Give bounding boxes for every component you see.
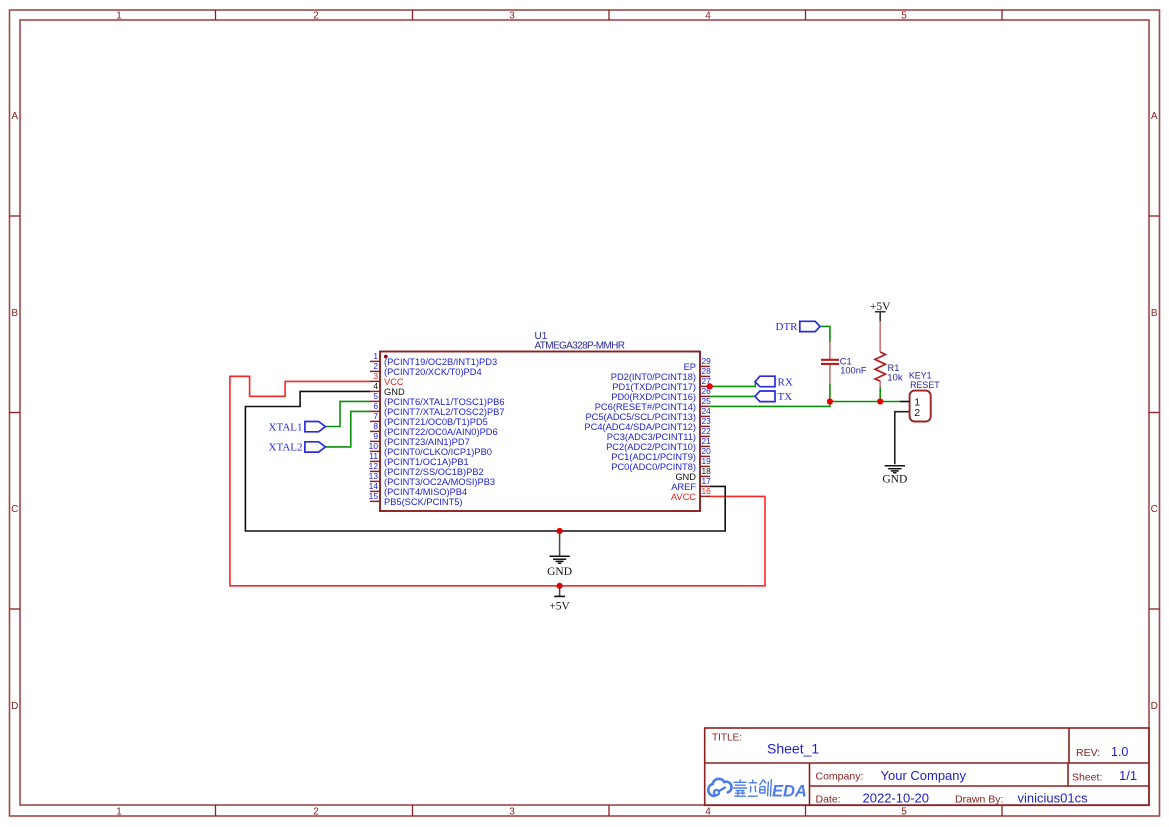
svg-text:PC6(RESET#/PCINT14): PC6(RESET#/PCINT14)	[595, 402, 696, 412]
svg-text:100nF: 100nF	[840, 366, 867, 376]
svg-text:TX: TX	[778, 391, 793, 403]
reference designator KEY1	[909, 371, 932, 381]
svg-text:VCC: VCC	[384, 377, 404, 387]
svg-text:Your Company: Your Company	[881, 768, 967, 783]
net port XTAL2	[269, 442, 326, 454]
svg-text:REV:: REV:	[1076, 747, 1100, 759]
svg-text:2022-10-20: 2022-10-20	[863, 791, 930, 806]
ground symbol center bottom	[547, 531, 572, 578]
svg-text:23: 23	[702, 416, 712, 426]
reference designator C1	[840, 357, 852, 367]
ground symbol below KEY1	[882, 466, 907, 486]
svg-text:GND: GND	[384, 387, 405, 397]
pin 17 AREF	[671, 476, 711, 492]
svg-text:3: 3	[373, 371, 378, 381]
svg-text:22: 22	[702, 426, 712, 436]
svg-text:AREF: AREF	[671, 482, 696, 492]
svg-text:D: D	[11, 701, 18, 712]
svg-text:5: 5	[373, 391, 378, 401]
svg-text:29: 29	[702, 356, 712, 366]
svg-text:(PCINT7/XTAL2/TOSC2)PB7: (PCINT7/XTAL2/TOSC2)PB7	[384, 407, 505, 417]
svg-text:XTAL2: XTAL2	[269, 442, 303, 454]
svg-text:17: 17	[702, 476, 712, 486]
svg-text:(PCINT4/MISO)PB4: (PCINT4/MISO)PB4	[384, 487, 467, 497]
pin 28 PD2(INT0/PCINT18)	[611, 366, 711, 382]
pin 20 PC1(ADC1/PCINT9)	[611, 446, 711, 462]
svg-text:6: 6	[373, 401, 378, 411]
svg-text:4: 4	[373, 381, 378, 391]
wire RX net from pin 27	[710, 382, 755, 387]
pin 24 PC5(ADC5/SCL/PCINT13)	[585, 406, 711, 422]
pin 19 PC0(ADC0/PCINT8)	[611, 456, 711, 472]
junction C1 bottom	[827, 398, 833, 404]
junction GND rail	[557, 528, 563, 534]
svg-text:RESET: RESET	[910, 380, 940, 390]
svg-text:2: 2	[914, 407, 920, 419]
svg-text:5: 5	[901, 11, 907, 22]
wire TX net from pin 26	[710, 395, 755, 397]
svg-text:4: 4	[705, 807, 711, 818]
svg-text:10k: 10k	[887, 372, 903, 383]
svg-text:PD2(INT0/PCINT18): PD2(INT0/PCINT18)	[611, 372, 696, 382]
junction +5V rail	[557, 583, 563, 589]
svg-text:12: 12	[369, 461, 379, 471]
value label RESET	[910, 380, 940, 390]
pin 7 (PCINT21/OC0B/T1)PD5	[370, 411, 488, 427]
svg-text:1: 1	[116, 11, 122, 22]
value label ATMEGA328P-MMHR	[535, 341, 626, 352]
svg-text:vinicius01cs: vinicius01cs	[1018, 791, 1089, 806]
svg-text:(PCINT21/OC0B/T1)PD5: (PCINT21/OC0B/T1)PD5	[384, 417, 488, 427]
svg-text:7: 7	[373, 411, 378, 421]
svg-text:24: 24	[702, 406, 712, 416]
pin 13 (PCINT3/OC2A/MOSI)PB3	[369, 471, 495, 487]
wire XTAL1 net to pin 5	[325, 401, 370, 426]
power +5V above R1	[870, 301, 891, 322]
value label 100nF	[840, 366, 867, 376]
pin 1 (PCINT19/OC2B/INT1)PD3	[370, 351, 497, 367]
svg-text:PB5(SCK/PCINT5): PB5(SCK/PCINT5)	[384, 497, 463, 507]
pin 15 PB5(SCK/PCINT5)	[369, 491, 463, 507]
pin 11 (PCINT1/OC1A)PB1	[369, 451, 468, 467]
svg-text:1: 1	[116, 807, 122, 818]
svg-text:19: 19	[702, 456, 712, 466]
pin 3 VCC	[370, 371, 404, 387]
svg-text:PC2(ADC2/PCINT10): PC2(ADC2/PCINT10)	[606, 442, 696, 452]
svg-text:A: A	[11, 111, 18, 122]
svg-text:(PCINT20/XCK/T0)PD4: (PCINT20/XCK/T0)PD4	[384, 367, 482, 377]
svg-text:ATMEGA328P-MMHR: ATMEGA328P-MMHR	[535, 341, 626, 352]
net port DTR	[776, 321, 821, 333]
wire GND net from pin 4 loop to pin 17	[245, 391, 725, 531]
pin 25 PC6(RESET#/PCINT14)	[595, 396, 711, 412]
svg-text:GND: GND	[547, 566, 572, 578]
resistor R1	[875, 321, 885, 387]
pin 27 PD1(TXD/PCINT17)	[612, 376, 711, 392]
svg-text:21: 21	[702, 436, 712, 446]
svg-text:Company:: Company:	[816, 771, 864, 783]
svg-text:PC0(ADC0/PCINT8): PC0(ADC0/PCINT8)	[611, 462, 696, 472]
junction R1 bottom	[877, 398, 883, 404]
pin 18 GND	[675, 466, 711, 482]
value label 10k	[887, 372, 903, 383]
svg-text:KEY1: KEY1	[909, 371, 932, 381]
pin 5 (PCINT6/XTAL1/TOSC1)PB6	[370, 391, 505, 407]
svg-text:15: 15	[369, 491, 379, 501]
junction pin 27	[707, 383, 713, 389]
pin 4 GND	[370, 381, 405, 397]
svg-text:9: 9	[373, 431, 378, 441]
reference designator R1	[888, 363, 900, 373]
pin 21 PC2(ADC2/PCINT10)	[606, 436, 711, 452]
svg-text:RX: RX	[778, 376, 793, 388]
wire RESET net from pin 25 to KEY1 pin 1	[710, 402, 900, 407]
svg-text:10: 10	[369, 441, 379, 451]
reference designator U1	[535, 331, 548, 342]
wire R1 bottom to RESET net	[879, 387, 881, 401]
svg-text:(PCINT19/OC2B/INT1)PD3: (PCINT19/OC2B/INT1)PD3	[384, 357, 497, 367]
svg-text:3: 3	[509, 11, 515, 22]
svg-text:PD0(RXD/PCINT16): PD0(RXD/PCINT16)	[611, 392, 696, 402]
svg-text:2: 2	[313, 11, 319, 22]
pin 16 AVCC	[671, 486, 711, 502]
svg-text:1/1: 1/1	[1119, 768, 1137, 783]
pin 2 (PCINT20/XCK/T0)PD4	[370, 361, 482, 377]
svg-text:(PCINT6/XTAL1/TOSC1)PB6: (PCINT6/XTAL1/TOSC1)PB6	[384, 397, 505, 407]
pin 9 (PCINT23/AIN1)PD7	[370, 431, 470, 447]
pin 12 (PCINT2/SS/OC1B)PB2	[369, 461, 484, 477]
IC U1 ATMEGA328P-MMHR body	[380, 352, 700, 512]
svg-text:PD1(TXD/PCINT17): PD1(TXD/PCINT17)	[612, 382, 696, 392]
svg-text:8: 8	[373, 421, 378, 431]
svg-text:20: 20	[702, 446, 712, 456]
svg-text:C: C	[1151, 504, 1158, 515]
svg-text:DTR: DTR	[776, 321, 799, 333]
svg-text:AVCC: AVCC	[671, 492, 696, 502]
svg-text:25: 25	[702, 396, 712, 406]
svg-text:Drawn By:: Drawn By:	[955, 794, 1003, 806]
pin 23 PC4(ADC4/SDA/PCINT12)	[584, 416, 711, 432]
svg-text:A: A	[1151, 111, 1158, 122]
svg-text:2: 2	[373, 361, 378, 371]
svg-text:Sheet_1: Sheet_1	[767, 741, 819, 757]
net port RX	[755, 376, 793, 388]
svg-text:XTAL1: XTAL1	[269, 421, 303, 433]
svg-text:GND: GND	[882, 473, 907, 485]
svg-text:+5V: +5V	[549, 600, 570, 612]
wire KEY1 pin 2 to ground	[895, 412, 910, 465]
svg-text:Date:: Date:	[816, 794, 841, 806]
svg-text:PC1(ADC1/PCINT9): PC1(ADC1/PCINT9)	[611, 452, 696, 462]
svg-text:1.0: 1.0	[1111, 745, 1128, 759]
svg-text:PC4(ADC4/SDA/PCINT12): PC4(ADC4/SDA/PCINT12)	[584, 422, 696, 432]
svg-text:11: 11	[369, 451, 378, 461]
svg-text:(PCINT23/AIN1)PD7: (PCINT23/AIN1)PD7	[384, 437, 470, 447]
pin 29 EP	[684, 356, 712, 372]
svg-text:EDA: EDA	[772, 783, 807, 801]
logo JLC EDA	[708, 779, 807, 801]
wire VCC net from pin 3 staircase to bottom rail and pin 16	[230, 376, 765, 586]
svg-text:(PCINT2/SS/OC1B)PB2: (PCINT2/SS/OC1B)PB2	[384, 467, 484, 477]
svg-text:PC5(ADC5/SCL/PCINT13): PC5(ADC5/SCL/PCINT13)	[585, 412, 696, 422]
wire XTAL2 net to pin 6	[325, 411, 370, 447]
svg-text:C: C	[11, 504, 18, 515]
svg-text:1: 1	[373, 351, 378, 361]
svg-text:TITLE:: TITLE:	[712, 733, 742, 744]
svg-text:3: 3	[509, 807, 515, 818]
svg-text:B: B	[11, 308, 18, 319]
svg-text:4: 4	[705, 11, 711, 22]
svg-text:(PCINT22/OC0A/AIN0)PD6: (PCINT22/OC0A/AIN0)PD6	[384, 427, 498, 437]
svg-text:5: 5	[901, 807, 907, 818]
svg-text:B: B	[1151, 308, 1158, 319]
title block	[705, 728, 1149, 806]
power +5V bottom	[549, 586, 570, 613]
svg-text:18: 18	[702, 466, 712, 476]
pin 14 (PCINT4/MISO)PB4	[369, 481, 468, 497]
pin 10 (PCINT0/CLKO/ICP1)PB0	[369, 441, 492, 457]
pushbutton KEY1	[900, 391, 931, 422]
svg-text:(PCINT0/CLKO/ICP1)PB0: (PCINT0/CLKO/ICP1)PB0	[384, 447, 492, 457]
svg-text:GND: GND	[675, 472, 696, 482]
svg-text:PC3(ADC3/PCINT11): PC3(ADC3/PCINT11)	[607, 432, 696, 442]
svg-text:D: D	[1151, 701, 1158, 712]
wire C1 bottom to RESET net	[829, 384, 831, 402]
pin 26 PD0(RXD/PCINT16)	[611, 386, 711, 402]
svg-text:(PCINT3/OC2A/MOSI)PB3: (PCINT3/OC2A/MOSI)PB3	[384, 477, 495, 487]
svg-text:16: 16	[702, 486, 712, 496]
pin 22 PC3(ADC3/PCINT11)	[607, 426, 711, 442]
net port XTAL1	[269, 421, 326, 433]
svg-text:Sheet:: Sheet:	[1072, 772, 1102, 784]
pin 6 (PCINT7/XTAL2/TOSC2)PB7	[370, 401, 505, 417]
svg-text:EP: EP	[684, 362, 696, 372]
svg-text:28: 28	[702, 366, 712, 376]
pin 8 (PCINT22/OC0A/AIN0)PD6	[370, 421, 498, 437]
capacitor C1	[821, 342, 839, 384]
net port TX	[755, 391, 792, 403]
wire DTR net to C1 top	[820, 326, 830, 342]
svg-text:2: 2	[313, 807, 319, 818]
svg-text:(PCINT1/OC1A)PB1: (PCINT1/OC1A)PB1	[384, 457, 469, 467]
svg-text:14: 14	[369, 481, 379, 491]
svg-text:13: 13	[369, 471, 379, 481]
